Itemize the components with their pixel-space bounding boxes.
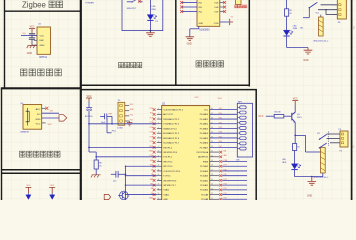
svg-text:DAT: DAT bbox=[40, 39, 45, 42]
junction dot DAT bbox=[31, 35, 33, 37]
wire row8 long bbox=[89, 146, 157, 148]
svg-text:R5: R5 bbox=[289, 10, 291, 12]
svg-text:P0.6/AD6: P0.6/AD6 bbox=[200, 142, 208, 145]
svg-text:P2.0: P2.0 bbox=[259, 116, 264, 118]
power VCC symbol bbox=[29, 29, 35, 33]
svg-text:P16: P16 bbox=[150, 136, 153, 138]
section border left upper bbox=[4, 0, 6, 89]
svg-text:DQ: DQ bbox=[23, 33, 26, 35]
svg-text:R6: R6 bbox=[99, 163, 101, 165]
wire GND light bbox=[42, 117, 59, 119]
wire vcc feed relay1 bbox=[286, 0, 288, 9]
svg-text:XTAL2: XTAL2 bbox=[163, 189, 170, 192]
svg-text:LED: LED bbox=[152, 6, 157, 8]
svg-text:P17: P17 bbox=[150, 141, 153, 143]
svg-text:P11: P11 bbox=[130, 119, 133, 121]
svg-text:P03: P03 bbox=[219, 127, 222, 129]
wire vertical left of J2 bbox=[106, 118, 108, 133]
no-ERC ADC bbox=[45, 107, 48, 110]
capacitor C2 reset bbox=[105, 114, 107, 120]
bus vertical left bbox=[125, 166, 127, 200]
svg-text:P10: P10 bbox=[150, 108, 153, 110]
wire junction right bbox=[295, 134, 305, 136]
svg-text:P0.1/AD1: P0.1/AD1 bbox=[200, 118, 208, 121]
wire input pin IN2 bbox=[182, 2, 197, 4]
svg-text:P07: P07 bbox=[219, 146, 222, 148]
svg-text:GRN: GRN bbox=[293, 28, 298, 30]
svg-text:VCC: VCC bbox=[26, 185, 31, 187]
svg-text:INT3/RD P3.7: INT3/RD P3.7 bbox=[163, 185, 176, 187]
svg-text:P2.4/A12: P2.4/A12 bbox=[200, 179, 208, 182]
pin stub GND bbox=[34, 44, 37, 46]
LED D2 bbox=[291, 164, 297, 169]
svg-text:DHT11: DHT11 bbox=[40, 56, 48, 59]
connector J2 pins bbox=[125, 105, 129, 107]
svg-text:DO: DO bbox=[50, 111, 53, 113]
svg-text:15: 15 bbox=[158, 174, 160, 176]
svg-text:P02: P02 bbox=[219, 122, 222, 124]
relay K2 coil bbox=[319, 17, 324, 36]
caption dian-yuan-jie-kou bbox=[119, 62, 124, 67]
wires P0.x to RP bbox=[210, 109, 238, 111]
svg-text:P11: P11 bbox=[150, 113, 153, 115]
svg-text:MOSI/ADC5 P1.5: MOSI/ADC5 P1.5 bbox=[163, 132, 180, 135]
svg-text:10: 10 bbox=[158, 151, 160, 153]
svg-text:COM: COM bbox=[214, 23, 219, 25]
transistor Q3 body bbox=[120, 191, 129, 200]
svg-text:SW-DPDT: SW-DPDT bbox=[127, 8, 137, 10]
relay contact arm relay1 bbox=[309, 2, 317, 7]
svg-text:P2.7/A15: P2.7/A15 bbox=[200, 165, 208, 168]
svg-text:GND: GND bbox=[40, 45, 45, 47]
svg-text:P0.4/AD4: P0.4/AD4 bbox=[200, 132, 209, 135]
wire down to coil bbox=[305, 135, 307, 152]
wire input pin IN3 bbox=[182, 6, 197, 8]
svg-text:VCC: VCC bbox=[218, 98, 223, 100]
svg-text:MISO/ADC6 P1.6: MISO/ADC6 P1.6 bbox=[163, 137, 180, 140]
svg-text:LED: LED bbox=[293, 25, 297, 27]
wire contact to J7 pin1 bbox=[321, 4, 338, 6]
section border v power/motor bbox=[175, 0, 177, 86]
svg-text:P0.2/AD2: P0.2/AD2 bbox=[200, 123, 208, 126]
svg-text:GND: GND bbox=[163, 199, 168, 200]
svg-text:SS/ADC4 P1.4: SS/ADC4 P1.4 bbox=[163, 127, 177, 130]
svg-text:P2.5/A13: P2.5/A13 bbox=[200, 175, 208, 178]
svg-text:ADC: ADC bbox=[36, 108, 41, 111]
svg-text:XTAL1: XTAL1 bbox=[163, 193, 170, 196]
resistor R7 bbox=[293, 144, 297, 151]
section border v mcu/relay2 bbox=[255, 89, 257, 200]
svg-text:16: 16 bbox=[158, 179, 160, 181]
svg-text:CLKOUT1/T0 P3.4: CLKOUT1/T0 P3.4 bbox=[163, 171, 181, 173]
svg-text:T0: T0 bbox=[151, 169, 153, 171]
section border h light bottom bbox=[2, 169, 81, 171]
photoresistor glyph bbox=[26, 108, 30, 126]
wire gnd stem relay2 bbox=[311, 177, 313, 182]
ground R6 bbox=[91, 175, 101, 178]
wire jog to R6 bbox=[89, 151, 96, 153]
junction dot row10 bbox=[95, 156, 97, 158]
svg-text:VCC: VCC bbox=[50, 185, 55, 187]
power port COM bbox=[230, 19, 233, 25]
no-ERC marks left column bbox=[153, 108, 156, 111]
svg-text:RXD2/ADC2 P1.2: RXD2/ADC2 P1.2 bbox=[163, 118, 180, 121]
push button S1 bbox=[87, 109, 89, 111]
wire label to R4 bbox=[266, 115, 274, 117]
wire DAT bbox=[21, 34, 37, 36]
no-ERC OU6 bbox=[223, 6, 226, 9]
svg-text:P0.0/AD0: P0.0/AD0 bbox=[200, 113, 208, 116]
wire R4 to base bbox=[284, 115, 292, 117]
resistor R4 bbox=[274, 114, 284, 118]
svg-text:POWER: POWER bbox=[86, 2, 95, 4]
relay K1 coil bbox=[321, 148, 326, 174]
pin stub VCC bbox=[34, 34, 37, 36]
capacitor C3 bbox=[116, 171, 118, 178]
caption wen-shi-du-jian-ce bbox=[21, 69, 27, 76]
pin stub DAT bbox=[34, 39, 37, 41]
connector J8 pins bbox=[341, 133, 343, 135]
svg-text:VCC: VCC bbox=[40, 35, 45, 37]
svg-text:11: 11 bbox=[158, 155, 160, 157]
svg-text:RL1: RL1 bbox=[316, 12, 319, 14]
svg-text:VCC: VCC bbox=[36, 124, 41, 126]
ground power section bbox=[146, 33, 155, 37]
stubs right lower bbox=[210, 151, 220, 153]
wire contact to J7 pin3 bbox=[326, 14, 337, 16]
svg-text:P00: P00 bbox=[219, 113, 222, 115]
switch S1 fragment bbox=[127, 1, 132, 3]
wire contact pivot relay1 bbox=[308, 8, 310, 18]
svg-text:X1/C2CIN EA: X1/C2CIN EA bbox=[196, 151, 209, 154]
svg-text:INT4/RXD P3.0: INT4/RXD P3.0 bbox=[163, 152, 178, 154]
wire R6 to gnd bbox=[95, 169, 97, 175]
junction dot C3 bbox=[125, 173, 127, 175]
svg-text:ULN2003: ULN2003 bbox=[199, 29, 210, 32]
graphic box power bbox=[122, 0, 163, 31]
relay contact arm 2b bbox=[319, 143, 326, 148]
wire LED to gnd rail bbox=[286, 36, 288, 47]
power VCC reset bbox=[86, 98, 92, 102]
pin stub ADC bbox=[42, 107, 46, 109]
MCU left pin stubs bbox=[157, 109, 162, 111]
junction dot row8 bbox=[88, 147, 90, 149]
svg-text:VCC: VCC bbox=[195, 97, 200, 99]
svg-text:P0.5/AD5: P0.5/AD5 bbox=[200, 137, 208, 140]
svg-text:17: 17 bbox=[158, 184, 160, 186]
wire button down bbox=[88, 111, 90, 152]
svg-text:19: 19 bbox=[158, 193, 160, 195]
section border h zigbee bottom bbox=[5, 10, 81, 12]
pin stub OU5 bbox=[220, 2, 224, 4]
svg-text:INT1 P3.3: INT1 P3.3 bbox=[163, 166, 173, 168]
section border v col1/col2 bbox=[80, 0, 82, 200]
ground motor section bbox=[186, 37, 195, 41]
svg-text:GM5539: GM5539 bbox=[20, 132, 29, 134]
relay contact arm 1b bbox=[320, 134, 327, 139]
svg-text:SRD-05VDC-SL-C: SRD-05VDC-SL-C bbox=[313, 177, 329, 179]
svg-text:GND: GND bbox=[35, 119, 40, 121]
wire GND pin path bbox=[198, 26, 200, 29]
svg-text:SRD-05VDC-SL-C: SRD-05VDC-SL-C bbox=[313, 40, 329, 42]
linkage dashed relay2 bbox=[328, 132, 330, 147]
LED bottom-left 2 bbox=[50, 195, 55, 200]
svg-text:VCC: VCC bbox=[204, 110, 209, 112]
wire contact to J8 pin1 bbox=[327, 133, 340, 135]
svg-text:P10: P10 bbox=[130, 114, 133, 116]
svg-text:GND: GND bbox=[187, 44, 192, 46]
label stepper motor bbox=[235, 5, 238, 8]
wire R7 to LED2 bbox=[294, 151, 296, 164]
IC U2 MCU body bbox=[162, 106, 210, 202]
section border h mcu top bbox=[81, 89, 257, 91]
svg-text:PSEN: PSEN bbox=[203, 161, 209, 163]
wire Q1 emitter down bbox=[294, 122, 296, 143]
pin stub VCC light bbox=[42, 122, 46, 124]
svg-text:VCC: VCC bbox=[48, 124, 53, 126]
capacitor C1 bbox=[29, 34, 35, 36]
wire DO out bbox=[42, 112, 59, 114]
wire row3 long bbox=[89, 123, 157, 125]
svg-text:IN0: IN0 bbox=[150, 160, 153, 162]
svg-text:C: C bbox=[353, 145, 355, 149]
wire VCC stem bbox=[31, 32, 33, 35]
no-ERC IN2 bbox=[180, 1, 183, 4]
wires right lower out bbox=[222, 161, 247, 163]
ground temp section bbox=[27, 46, 37, 49]
no-ERC mark on switch bbox=[138, 0, 141, 3]
svg-text:P14: P14 bbox=[150, 127, 153, 129]
connector J7 body bbox=[337, 0, 346, 19]
wire LED2 down bbox=[294, 170, 296, 177]
svg-text:P01: P01 bbox=[219, 118, 222, 120]
svg-text:CON4: CON4 bbox=[117, 127, 123, 129]
svg-text:GND: GND bbox=[199, 23, 204, 25]
wire R5 to LED bbox=[286, 16, 288, 30]
section border h bottomleft top bbox=[2, 172, 81, 174]
svg-text:P2.1/A9: P2.1/A9 bbox=[201, 193, 208, 196]
wire between caps bbox=[31, 35, 33, 38]
svg-text:13: 13 bbox=[158, 165, 160, 167]
wire vcc to button bbox=[88, 102, 90, 108]
wire coil top pin bbox=[320, 15, 322, 17]
ground J2 bbox=[129, 121, 131, 122]
svg-text:INT2/WR P3.6: INT2/WR P3.6 bbox=[163, 180, 177, 182]
resistor R6 bbox=[94, 160, 98, 169]
svg-text:VCC: VCC bbox=[30, 26, 35, 28]
svg-text:ALE/PROG: ALE/PROG bbox=[198, 156, 208, 159]
connector J8 body bbox=[340, 131, 348, 147]
svg-text:CLKOUT0/ADC0 P1.0: CLKOUT0/ADC0 P1.0 bbox=[163, 109, 184, 112]
svg-text:P04: P04 bbox=[219, 132, 222, 134]
svg-text:TXD2/ADC3 P1.3: TXD2/ADC3 P1.3 bbox=[163, 123, 180, 126]
svg-text:P0.3/AD3: P0.3/AD3 bbox=[200, 127, 208, 130]
svg-text:P2.2/A10: P2.2/A10 bbox=[200, 189, 208, 192]
no-ERC OU5 bbox=[223, 1, 226, 4]
svg-text:VCC: VCC bbox=[293, 98, 298, 100]
svg-text:ADC1 P1.1: ADC1 P1.1 bbox=[163, 113, 174, 116]
svg-text:18: 18 bbox=[158, 188, 160, 190]
svg-text:X2: X2 bbox=[151, 188, 153, 190]
power VCC relay2 bbox=[292, 101, 298, 105]
svg-text:RST/P5.4: RST/P5.4 bbox=[163, 147, 173, 149]
svg-text:INT0 P3.2: INT0 P3.2 bbox=[163, 161, 173, 163]
svg-text:10u: 10u bbox=[113, 180, 116, 182]
IC U1 DHT11 body bbox=[37, 27, 51, 54]
wires rows 12-18 to bus bbox=[126, 165, 157, 167]
junction dot power bbox=[150, 30, 152, 32]
pin stub OU6 bbox=[220, 6, 224, 8]
no-ERC IN3 bbox=[180, 6, 183, 9]
svg-text:P2.0/A8: P2.0/A8 bbox=[201, 198, 208, 200]
junction dot gnd relay2 bbox=[311, 176, 313, 178]
caption dian-ji-qu-dong bbox=[196, 61, 202, 67]
junction dot relay2 bbox=[294, 135, 296, 137]
transistor Q1 bbox=[292, 112, 295, 122]
ground relay2 bbox=[308, 181, 317, 185]
connector J7 pins bbox=[333, 5, 338, 15]
pin stub OU7 bbox=[220, 11, 224, 13]
wire contact to J8 pin3 bbox=[330, 142, 340, 144]
port arrow bottom bbox=[104, 194, 110, 199]
svg-text:DO: DO bbox=[37, 114, 41, 116]
svg-text:20: 20 bbox=[158, 198, 160, 200]
svg-text:P12: P12 bbox=[150, 117, 153, 119]
connector stepper fragment bbox=[236, 0, 242, 5]
caption guang-zhao-jian-ce-dian-lu bbox=[20, 151, 26, 157]
LED D1 bbox=[147, 15, 153, 20]
capacitor C2 bbox=[29, 38, 35, 40]
svg-text:P2.6/A14: P2.6/A14 bbox=[200, 170, 209, 173]
wire row10 long bbox=[96, 156, 157, 158]
svg-text:GND: GND bbox=[303, 60, 308, 62]
svg-text:LED: LED bbox=[282, 159, 286, 161]
svg-text:RED: RED bbox=[152, 9, 157, 11]
svg-text:Zigbee: Zigbee bbox=[22, 0, 46, 9]
section border h motor bottom bbox=[81, 84, 250, 86]
port arrow DO bbox=[59, 115, 67, 121]
section border right sheet edge bbox=[351, 0, 353, 200]
no-ERC IN4 bbox=[180, 10, 183, 13]
resistor network RP1 bbox=[237, 103, 252, 157]
svg-text:IN1: IN1 bbox=[300, 28, 303, 30]
wire to Q3 bbox=[118, 194, 122, 196]
section border h left middle bbox=[1, 87, 81, 89]
wire vcc to Q1 bbox=[294, 105, 296, 113]
svg-text:GND: GND bbox=[307, 195, 312, 197]
resistor R5 bbox=[285, 9, 289, 16]
svg-text:14: 14 bbox=[158, 169, 160, 171]
svg-text:TXD P3.1: TXD P3.1 bbox=[163, 157, 173, 159]
svg-text:P06: P06 bbox=[219, 141, 222, 143]
svg-text:P05: P05 bbox=[219, 136, 222, 138]
svg-text:VCC: VCC bbox=[87, 96, 92, 98]
section border left lower bbox=[1, 89, 3, 201]
IC U4 photo module body bbox=[23, 105, 42, 130]
wire coil bottom relay2 bbox=[322, 173, 324, 177]
svg-text:GND: GND bbox=[27, 53, 32, 55]
LED bottom-left 1 bbox=[26, 195, 31, 200]
svg-text:12: 12 bbox=[158, 160, 160, 162]
svg-text:R4 10K: R4 10K bbox=[274, 112, 281, 114]
svg-text:P0.7/AD7: P0.7/AD7 bbox=[200, 146, 208, 149]
wire GND pin bbox=[32, 44, 37, 46]
wire LED to gnd bbox=[149, 21, 151, 33]
wire switch to LED bbox=[149, 0, 151, 15]
wire contact to J7 pin2 bbox=[318, 9, 337, 11]
junction dot row3 bbox=[88, 123, 90, 125]
wire contact to J8 pin2 bbox=[327, 137, 340, 139]
wire cap2 to gnd bbox=[31, 39, 33, 45]
svg-text:RED: RED bbox=[282, 162, 287, 164]
svg-text:SCLK/ADC7 P1.7: SCLK/ADC7 P1.7 bbox=[163, 142, 180, 145]
svg-text:T1 P3.5: T1 P3.5 bbox=[163, 176, 171, 178]
no-ERC OU7 bbox=[223, 10, 226, 13]
svg-text:P2.3/A11: P2.3/A11 bbox=[200, 184, 208, 187]
svg-text:P15: P15 bbox=[150, 132, 153, 134]
wire input pin IN4 bbox=[182, 11, 197, 13]
wire COM out bbox=[220, 21, 229, 23]
section border v motor/relay1 bbox=[248, 0, 250, 87]
ground relay1 bbox=[307, 48, 309, 51]
IC U5 ULN2003 body bbox=[197, 0, 220, 26]
connector J2 body bbox=[118, 102, 125, 125]
LED D5 bbox=[283, 30, 289, 35]
